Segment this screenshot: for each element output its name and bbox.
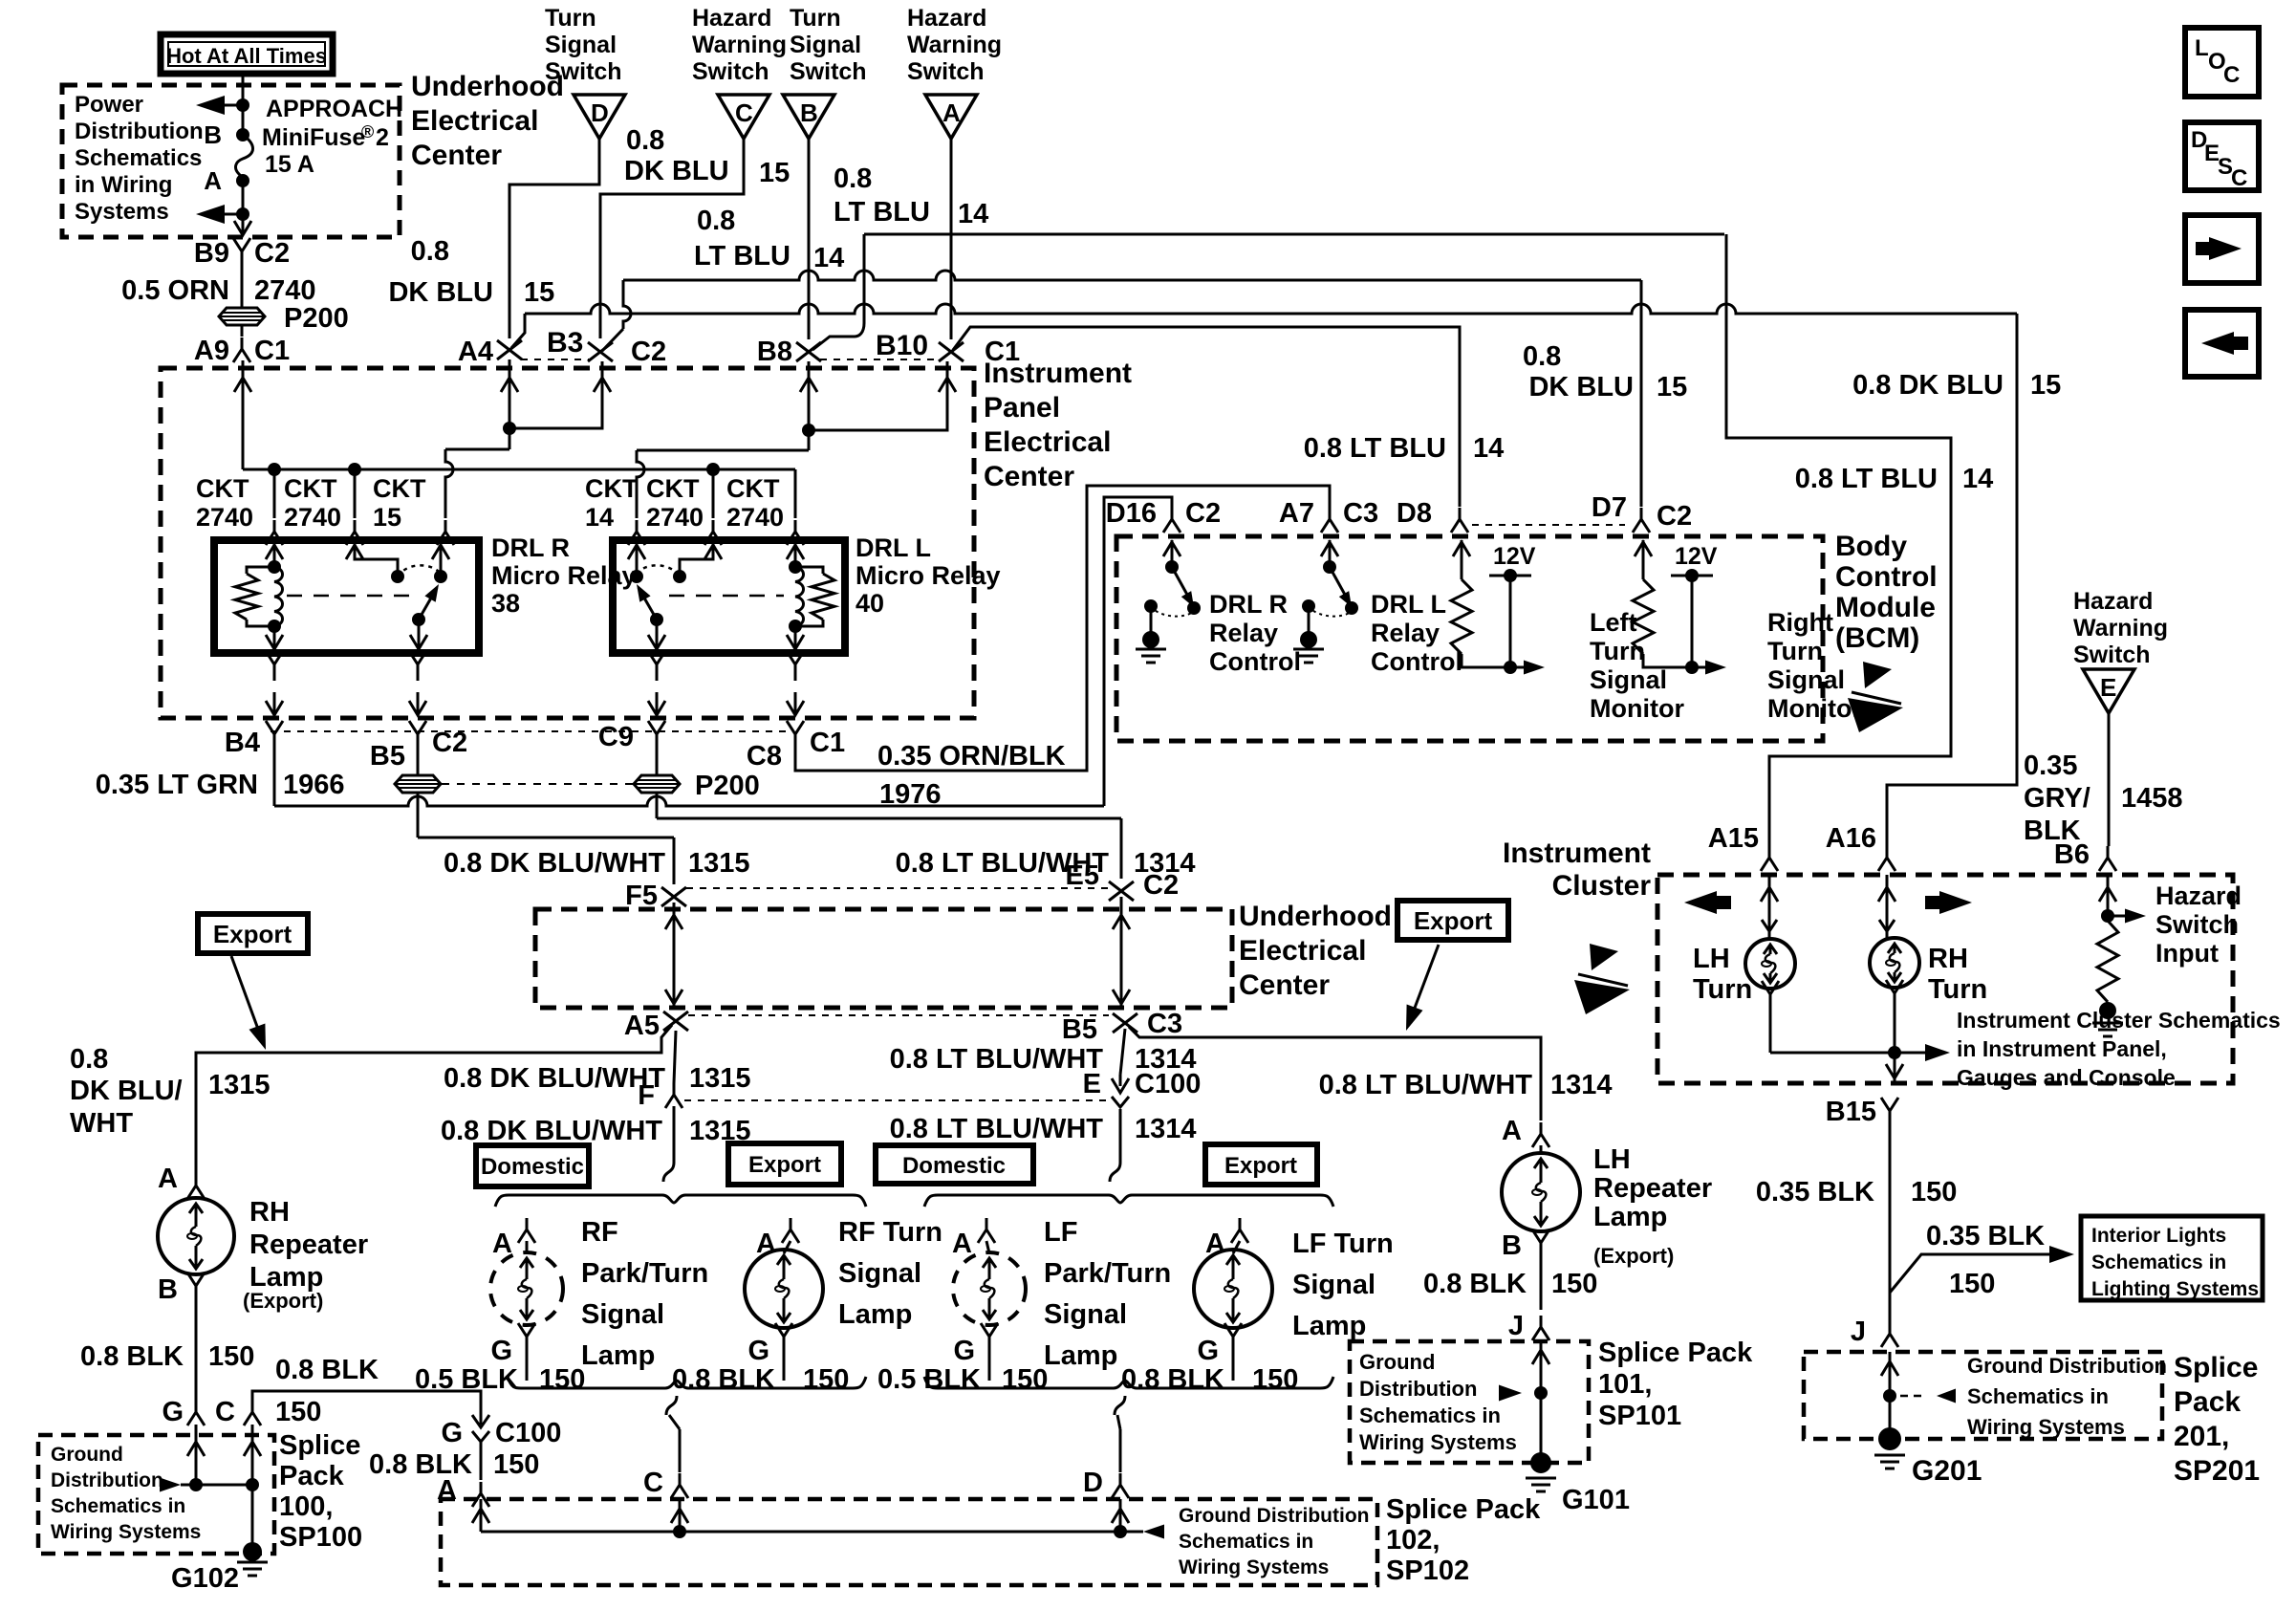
bus middle descender to C2 X: [623, 280, 631, 329]
fine dashed A5-B5 row: [688, 1014, 1109, 1016]
wire E to bracket: [1119, 1109, 1122, 1163]
svg-text:Signal: Signal: [581, 1299, 664, 1330]
junction dot CKT2740 a: [268, 463, 281, 476]
fine dashed D8-D7: [1472, 524, 1625, 526]
svg-text:A: A: [158, 1164, 178, 1194]
svg-text:0.8 BLK: 0.8 BLK: [275, 1355, 379, 1385]
svg-text:Switch: Switch: [692, 58, 769, 85]
Domestic box 2: [876, 1145, 1033, 1184]
svg-text:15: 15: [2030, 370, 2061, 401]
relay R NO contact wire: [440, 543, 443, 577]
wire C100 down: [480, 1442, 483, 1480]
svg-text:Export: Export: [1224, 1153, 1297, 1179]
GD wires left: [195, 1425, 198, 1485]
connector B4: [266, 721, 283, 746]
svg-text:2740: 2740: [254, 275, 316, 306]
svg-text:0.35 ORN/BLK: 0.35 ORN/BLK: [877, 741, 1066, 772]
connector V CKT2740 c: [704, 520, 722, 545]
bus top to B8 descender: [812, 234, 864, 350]
svg-text:Warning: Warning: [907, 32, 1002, 58]
svg-text:WHT: WHT: [70, 1108, 133, 1139]
LF park/turn lamp: [986, 1241, 989, 1253]
LF park/turn G connector: [981, 1323, 998, 1348]
svg-text:E: E: [2100, 673, 2116, 702]
svg-text:14: 14: [585, 503, 614, 532]
svg-text:A: A: [942, 98, 961, 127]
splice P200 symbol: [219, 308, 265, 325]
relay R NO contact dot: [434, 570, 447, 583]
connector E arrow: [1112, 1078, 1129, 1093]
svg-text:Systems: Systems: [75, 199, 169, 225]
relay L coil pin wire: [794, 543, 797, 567]
DRL L relay control switch: [1329, 540, 1332, 567]
svg-text:Hazard: Hazard: [692, 5, 771, 32]
svg-text:2740: 2740: [196, 503, 253, 532]
svg-text:DRL L: DRL L: [1371, 590, 1446, 619]
relay L switch pivot dot: [673, 570, 686, 583]
DRL R relay control switch: [1171, 540, 1174, 567]
connector V CKT2740 a: [266, 520, 283, 545]
svg-text:150: 150: [1949, 1269, 1995, 1299]
svg-text:DRL R: DRL R: [1209, 590, 1288, 619]
DRL L micro relay box: [613, 540, 845, 653]
svg-text:Schematics: Schematics: [75, 145, 202, 171]
Body Control Module dashed box: [1116, 536, 1823, 741]
svg-text:RF: RF: [581, 1217, 618, 1248]
svg-text:Ground Distribution: Ground Distribution: [1967, 1354, 2167, 1378]
svg-text:Hazard: Hazard: [2155, 881, 2242, 910]
relay R coil top dot: [268, 560, 281, 574]
relay R coil out wire: [273, 626, 276, 651]
svg-text:14: 14: [1962, 464, 1993, 494]
arrow up A4 entry: [509, 359, 511, 449]
svg-text:B: B: [800, 98, 818, 127]
RF park/turn ground wire: [526, 1348, 529, 1381]
svg-text:1966: 1966: [283, 770, 345, 800]
wire CKT2740 c: [712, 469, 715, 518]
svg-text:C100: C100: [495, 1418, 561, 1448]
svg-text:Domestic: Domestic: [902, 1153, 1006, 1179]
svg-text:150: 150: [539, 1364, 585, 1395]
LH J connector: [1532, 1316, 1549, 1340]
connector A7: [1321, 508, 1338, 533]
LF turn lamp: [1233, 1241, 1240, 1253]
ground G102: [243, 1542, 262, 1561]
wire switch B to B8: [808, 139, 811, 339]
connector V CKT14: [628, 520, 645, 545]
relay R switch pivot dot: [391, 570, 404, 583]
svg-text:A: A: [1502, 1116, 1522, 1146]
hazard warning switch A triangle: [925, 95, 977, 139]
C connector gd: [244, 1401, 261, 1425]
Export box 2: [1205, 1144, 1317, 1185]
svg-text:Wiring Systems: Wiring Systems: [51, 1521, 201, 1543]
svg-text:Domestic: Domestic: [481, 1154, 584, 1180]
svg-text:15: 15: [524, 277, 554, 308]
svg-text:Instrument: Instrument: [984, 358, 1132, 389]
svg-text:Center: Center: [1239, 969, 1330, 1001]
svg-text:G: G: [747, 1336, 769, 1366]
LOC box: [2185, 28, 2259, 97]
interior lights branch: [1890, 1254, 2065, 1293]
svg-text:J: J: [1508, 1311, 1524, 1341]
svg-text:0.8 BLK: 0.8 BLK: [1121, 1364, 1224, 1395]
svg-text:D: D: [591, 98, 609, 127]
svg-text:B: B: [204, 120, 222, 149]
svg-text:Gauges and Console: Gauges and Console: [1957, 1065, 2176, 1090]
Splice Pack 102 dashed box: [441, 1499, 1377, 1585]
SP201 dashed leader: [1900, 1395, 1925, 1398]
relay L NO contact dot: [630, 570, 643, 583]
svg-text:B8: B8: [757, 337, 792, 367]
svg-text:1976: 1976: [879, 779, 942, 810]
svg-text:Wiring Systems: Wiring Systems: [1967, 1415, 2125, 1439]
fine dashed connector row line: [271, 730, 793, 732]
SP201 wire: [1889, 1352, 1892, 1439]
relay L switch common pin: [680, 543, 713, 572]
connector D16: [1163, 508, 1180, 533]
svg-text:F5: F5: [625, 881, 658, 911]
svg-text:Electrical: Electrical: [1239, 935, 1366, 967]
svg-text:Instrument Cluster Schematics: Instrument Cluster Schematics: [1957, 1008, 2281, 1033]
relay R switch contact arc: [398, 565, 441, 577]
fine dashed A4-C2: [521, 359, 589, 360]
svg-text:15 A: 15 A: [265, 151, 314, 178]
svg-text:Lighting Systems: Lighting Systems: [2091, 1278, 2259, 1300]
IC bottom bus: [1770, 1052, 1895, 1055]
svg-text:150: 150: [1551, 1269, 1597, 1299]
relay L resistor branch: [795, 567, 823, 574]
connector B15: [1881, 1098, 1898, 1122]
svg-text:Cluster: Cluster: [1552, 870, 1652, 902]
ground G201: [1878, 1427, 1901, 1450]
svg-text:B9: B9: [194, 238, 229, 269]
SP101 wire: [1540, 1341, 1543, 1463]
X connector C2: [588, 342, 613, 361]
junction dot CKT2740 b: [348, 463, 361, 476]
wire C9 1314: [656, 746, 659, 775]
svg-text:Pack: Pack: [2174, 1386, 2241, 1418]
RF park/turn G connector: [518, 1323, 535, 1348]
svg-text:B15: B15: [1826, 1097, 1876, 1127]
svg-text:0.8 BLK: 0.8 BLK: [80, 1341, 184, 1372]
svg-text:15: 15: [759, 158, 790, 188]
svg-text:Lamp: Lamp: [838, 1299, 912, 1330]
splice dashed link: [442, 783, 633, 785]
RF ground stem: [666, 1396, 677, 1415]
svg-text:Switch: Switch: [2155, 910, 2239, 939]
svg-text:C2: C2: [631, 337, 666, 367]
svg-text:C2: C2: [254, 238, 290, 269]
svg-text:101,: 101,: [1598, 1369, 1652, 1400]
pin C9 exit wire: [656, 662, 659, 681]
svg-text:SP100: SP100: [279, 1522, 362, 1553]
wire B15 down: [1889, 1122, 1892, 1322]
svg-text:2: 2: [376, 124, 389, 151]
svg-text:1315: 1315: [689, 1063, 751, 1094]
Export box B: [1397, 901, 1508, 940]
connector D8: [1451, 508, 1468, 533]
relay R armature dot: [412, 613, 425, 626]
svg-text:A7: A7: [1279, 498, 1314, 529]
svg-text:GRY/: GRY/: [2024, 783, 2090, 814]
fuse F2 feed wire: [242, 74, 245, 135]
pin B5 exit wire: [417, 662, 420, 681]
svg-text:Monitor: Monitor: [1767, 694, 1862, 723]
svg-text:Switch: Switch: [790, 58, 867, 85]
connector A16: [1878, 846, 1895, 871]
svg-text:Switch: Switch: [2073, 642, 2151, 668]
svg-text:Schematics in: Schematics in: [2091, 1251, 2226, 1273]
relay R coil: [274, 567, 283, 626]
connector V CKT2740 b: [346, 520, 363, 545]
svg-text:15: 15: [373, 503, 401, 532]
svg-text:A16: A16: [1826, 823, 1876, 854]
relay L NO contact wire: [636, 543, 639, 577]
svg-text:0.8 DK BLU/WHT: 0.8 DK BLU/WHT: [444, 1063, 665, 1094]
svg-text:Turn: Turn: [1767, 637, 1823, 665]
Domestic box 1: [476, 1145, 589, 1186]
svg-text:Schematics in: Schematics in: [1179, 1531, 1313, 1553]
relay R armature out: [418, 620, 421, 651]
svg-text:SP101: SP101: [1598, 1401, 1681, 1431]
svg-text:Ground: Ground: [51, 1444, 123, 1466]
arrow down at box exit: [234, 221, 251, 235]
relay L coil: [795, 567, 804, 626]
fuse node B dot: [236, 128, 249, 141]
relay L coil bottom dot: [789, 620, 802, 633]
svg-text:0.5 ORN: 0.5 ORN: [121, 275, 229, 306]
svg-text:G: G: [1197, 1336, 1219, 1366]
fine dashed F-E: [684, 1099, 1107, 1101]
BCM ESD logo: [1863, 662, 1892, 688]
svg-text:B3: B3: [547, 327, 583, 359]
svg-text:E5: E5: [1066, 860, 1099, 891]
relay R armature: [419, 588, 437, 620]
svg-text:G201: G201: [1912, 1455, 1982, 1487]
svg-text:201,: 201,: [2174, 1421, 2229, 1452]
Instrument Cluster dashed box: [1657, 875, 2233, 1083]
wire F5 through box: [673, 903, 676, 1008]
relay L armature out: [656, 620, 659, 651]
RH turn lamp: [1870, 938, 1919, 988]
X connector B10-C1: [939, 342, 964, 361]
Export arrow B: [1409, 945, 1439, 1023]
svg-text:0.8: 0.8: [834, 163, 872, 194]
left turn monitor resistor: [1461, 540, 1463, 579]
svg-text:B: B: [158, 1274, 178, 1305]
svg-text:A: A: [952, 1229, 972, 1259]
svg-text:0.8: 0.8: [411, 236, 449, 267]
D8 riser: [953, 327, 1460, 507]
svg-text:Turn: Turn: [545, 5, 596, 32]
fuse APPROACH MiniFuse 2 15A symbol: [236, 135, 253, 181]
Instrument Panel Electrical Center dashed box: [161, 368, 974, 718]
svg-text:LF: LF: [1044, 1217, 1077, 1248]
svg-text:150: 150: [1252, 1364, 1298, 1395]
RF turn branch connector: [782, 1218, 799, 1243]
svg-text:0.8 LT BLU/WHT: 0.8 LT BLU/WHT: [890, 1114, 1104, 1144]
connector D stem: [1112, 1473, 1129, 1498]
svg-text:Export: Export: [748, 1152, 821, 1178]
svg-text:0.35 LT GRN: 0.35 LT GRN: [96, 770, 258, 800]
svg-text:0.35: 0.35: [2024, 751, 2077, 781]
svg-text:C2: C2: [1657, 501, 1692, 532]
connector E5 X: [1109, 881, 1134, 901]
svg-text:0.8: 0.8: [1523, 341, 1561, 372]
svg-text:Left: Left: [1590, 608, 1637, 637]
RH turn wire: [1886, 875, 1889, 939]
GD left arrow: [160, 1478, 181, 1492]
svg-text:C2: C2: [1143, 870, 1179, 901]
connector C stem: [671, 1473, 688, 1498]
svg-text:2740: 2740: [726, 503, 784, 532]
connector A sp102: [472, 1482, 489, 1507]
svg-text:Control: Control: [1209, 647, 1301, 676]
splice lens B5: [395, 775, 441, 793]
RF turn lamp: [784, 1241, 791, 1253]
svg-text:Schematics in: Schematics in: [1359, 1403, 1501, 1427]
LF turn branch connector: [1231, 1218, 1248, 1243]
relay R coil bottom dot: [268, 620, 281, 633]
Splice Pack 101 dashed box: [1350, 1341, 1589, 1463]
pin C8 exit wire: [794, 662, 797, 681]
svg-text:Lamp: Lamp: [581, 1340, 655, 1371]
svg-text:Micro Relay: Micro Relay: [856, 561, 1001, 590]
connector V CKT2740 d: [787, 520, 804, 545]
Underhood Electrical Center lower dashed box: [535, 909, 1232, 1008]
svg-text:J: J: [1851, 1316, 1866, 1347]
svg-text:Signal: Signal: [838, 1258, 921, 1289]
svg-text:DK BLU: DK BLU: [388, 277, 493, 308]
svg-text:Input: Input: [2155, 939, 2219, 968]
wire A5 export branch: [196, 1025, 672, 1174]
svg-text:Export: Export: [1414, 906, 1493, 935]
svg-text:Body: Body: [1835, 531, 1907, 562]
svg-text:150: 150: [1911, 1177, 1957, 1207]
svg-text:Control: Control: [1371, 647, 1462, 676]
LH turn wire: [1768, 875, 1771, 940]
svg-text:Underhood: Underhood: [1239, 901, 1392, 932]
wire B9 to P200: [241, 263, 244, 308]
connector C8-C1: [787, 721, 804, 746]
svg-text:Turn: Turn: [1928, 974, 1987, 1005]
svg-text:14: 14: [1473, 433, 1504, 464]
svg-text:150: 150: [208, 1341, 254, 1372]
svg-text:0.5 BLK: 0.5 BLK: [877, 1364, 981, 1395]
svg-text:0.8: 0.8: [70, 1044, 108, 1075]
svg-text:Underhood: Underhood: [411, 71, 564, 102]
hazard input arrow: [2108, 915, 2136, 918]
bus DK BLU 15 middle: [623, 271, 1641, 280]
wire CKT2740 a: [273, 469, 276, 518]
svg-text:12V: 12V: [1675, 543, 1718, 570]
svg-text:in Wiring: in Wiring: [75, 172, 172, 198]
svg-text:D16: D16: [1106, 498, 1157, 529]
svg-text:B4: B4: [225, 728, 260, 758]
svg-text:1314: 1314: [1550, 1070, 1613, 1100]
svg-text:DK BLU/: DK BLU/: [70, 1076, 183, 1106]
svg-text:Lamp: Lamp: [1292, 1311, 1366, 1341]
svg-text:0.8 BLK: 0.8 BLK: [672, 1364, 775, 1395]
connector B5-C2: [409, 721, 426, 746]
SP102 left arrow: [1143, 1525, 1164, 1539]
wire C8 1976: [795, 486, 1330, 771]
svg-text:L: L: [2195, 35, 2209, 61]
svg-text:CKT: CKT: [585, 474, 639, 503]
svg-text:D8: D8: [1397, 498, 1432, 529]
junction dot above fuse: [236, 98, 249, 112]
svg-text:2740: 2740: [284, 503, 341, 532]
svg-text:C: C: [2223, 62, 2240, 88]
svg-text:LH: LH: [1593, 1144, 1631, 1175]
svg-text:C: C: [735, 98, 753, 127]
relay L coil top dot: [789, 560, 802, 574]
bus DK BLU 15 lower: [525, 304, 2017, 314]
svg-text:C2: C2: [1185, 498, 1221, 529]
connector C9: [648, 721, 665, 746]
D7 riser: [1640, 280, 1643, 507]
svg-text:G101: G101: [1562, 1485, 1630, 1515]
svg-text:Electrical: Electrical: [411, 105, 538, 137]
svg-text:LT BLU: LT BLU: [834, 197, 930, 228]
svg-text:0.8 LT BLU/WHT: 0.8 LT BLU/WHT: [1319, 1070, 1533, 1100]
svg-text:Signal: Signal: [1292, 1270, 1375, 1300]
X connector B8: [796, 342, 821, 361]
RH G connector: [187, 1401, 205, 1425]
svg-text:0.8 LT BLU: 0.8 LT BLU: [1304, 433, 1446, 464]
svg-text:P200: P200: [695, 771, 760, 801]
svg-text:B10: B10: [876, 330, 928, 361]
svg-text:B: B: [1502, 1230, 1522, 1261]
ORN feed bus: [243, 468, 795, 471]
svg-text:Warning: Warning: [2073, 615, 2168, 642]
svg-text:C1: C1: [254, 336, 290, 366]
svg-text:DRL L: DRL L: [856, 533, 931, 562]
svg-text:B5: B5: [370, 741, 405, 772]
svg-text:Splice: Splice: [279, 1430, 360, 1461]
svg-text:0.35 BLK: 0.35 BLK: [1926, 1221, 2045, 1251]
fuse node A dot: [236, 174, 249, 187]
svg-text:(Export): (Export): [1593, 1244, 1674, 1268]
ORN bus corner: [242, 468, 245, 469]
connector D7: [1633, 508, 1650, 533]
svg-text:Hazard: Hazard: [2073, 588, 2153, 615]
svg-text:Center: Center: [411, 140, 502, 171]
svg-text:14: 14: [813, 243, 844, 273]
svg-text:MiniFuse: MiniFuse: [262, 124, 365, 151]
bracket LF top: [924, 1195, 1333, 1207]
svg-text:G: G: [953, 1336, 975, 1366]
IC ESD logo: [1590, 944, 1618, 970]
svg-text:150: 150: [493, 1449, 539, 1480]
svg-text:A5: A5: [624, 1011, 660, 1041]
svg-text:Wiring Systems: Wiring Systems: [1179, 1556, 1329, 1578]
riser 1966 to D16: [1104, 497, 1172, 806]
svg-text:CKT: CKT: [373, 474, 426, 503]
relay L armature: [639, 588, 657, 620]
hazard input ground: [2099, 1002, 2116, 1019]
svg-text:SP201: SP201: [2174, 1455, 2260, 1487]
hazard warning switch C triangle: [718, 95, 769, 139]
svg-text:Signal: Signal: [1767, 665, 1845, 694]
svg-text:Signal: Signal: [790, 32, 861, 58]
connector A15: [1761, 846, 1778, 871]
Ground Distribution dashed box left: [38, 1435, 274, 1554]
svg-text:(BCM): (BCM): [1835, 622, 1919, 654]
RF turn G connector: [775, 1323, 792, 1348]
svg-text:Pack: Pack: [279, 1461, 345, 1491]
